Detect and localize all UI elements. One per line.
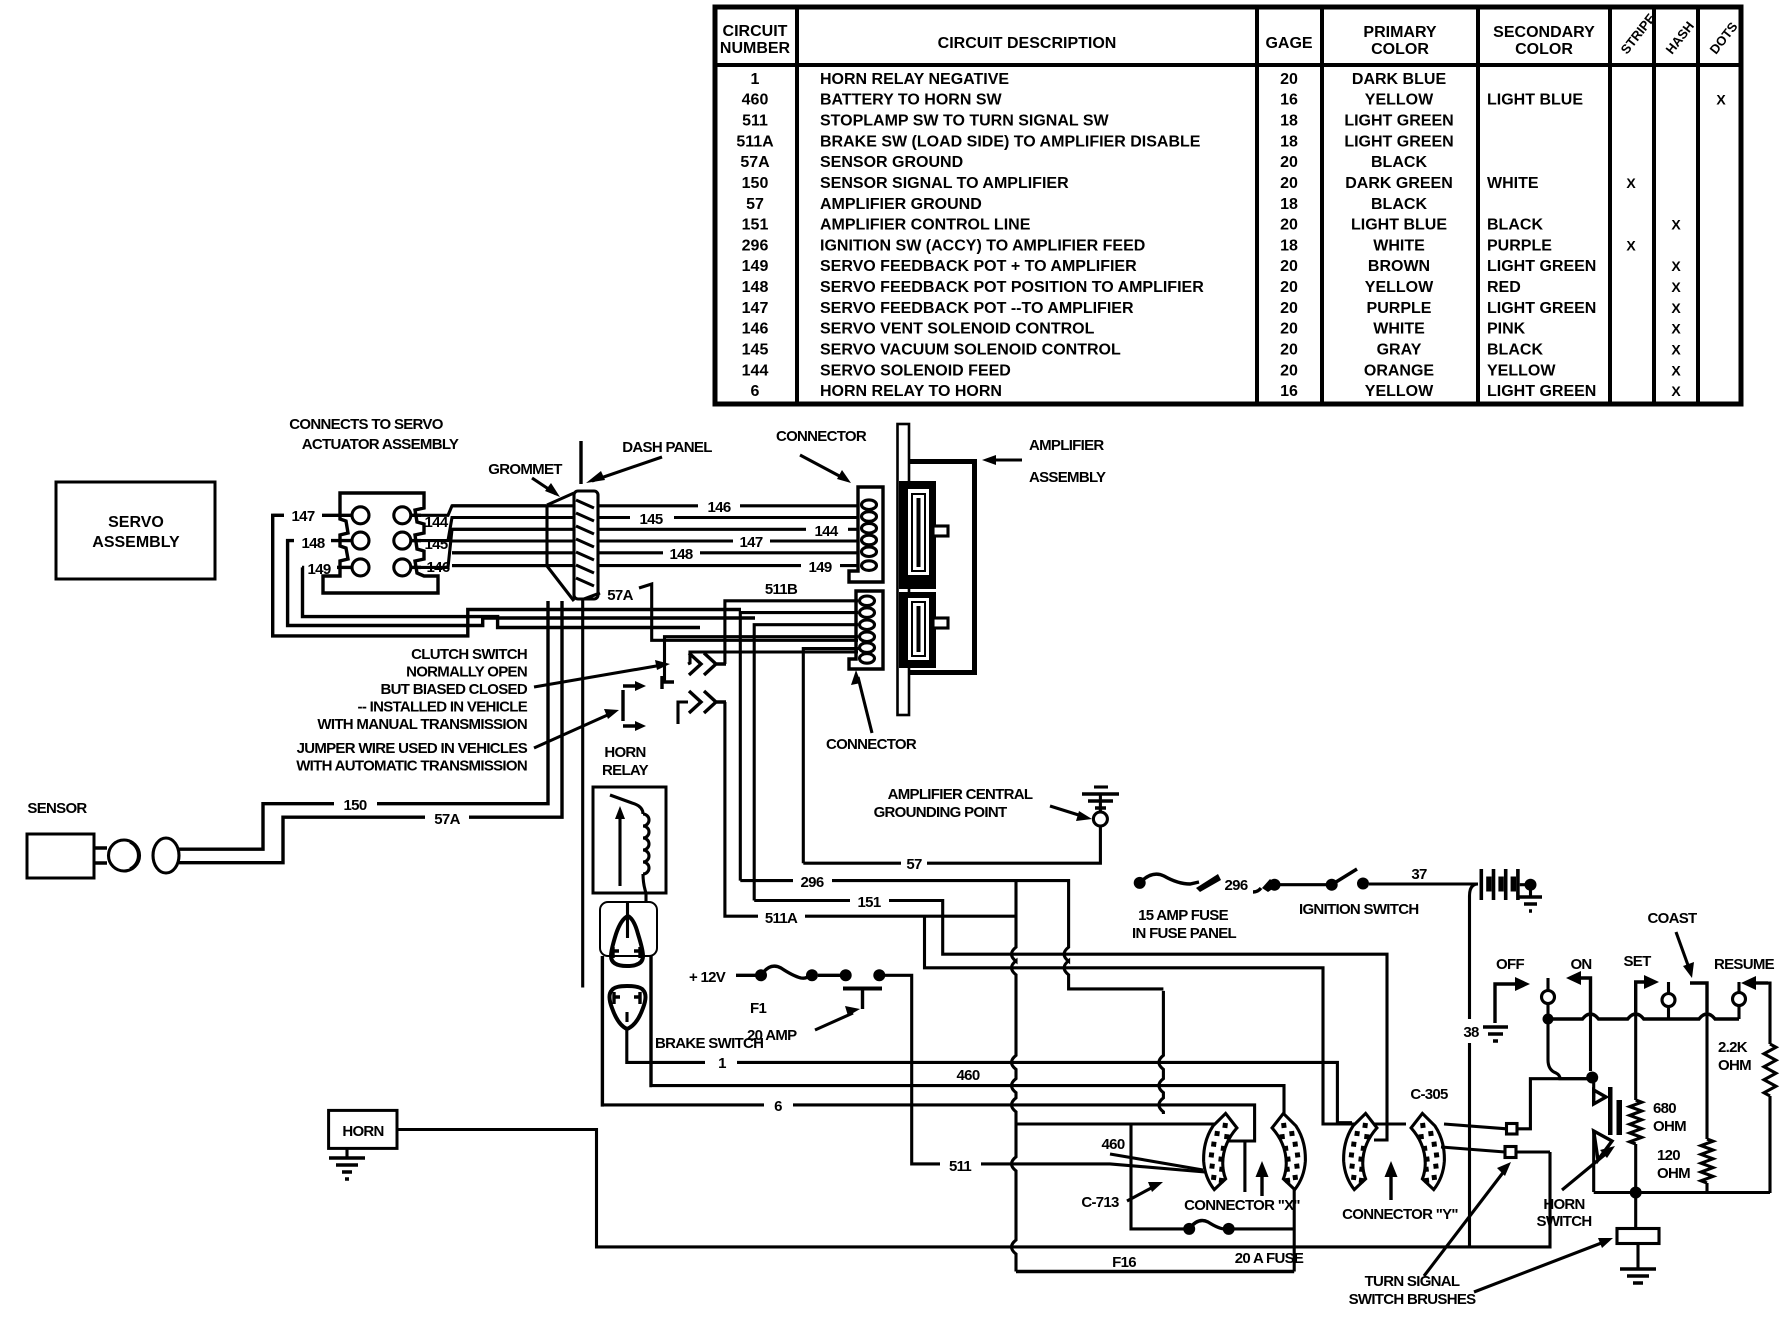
horn relay contact (pear shape) <box>611 916 643 966</box>
wire 145 run <box>410 518 630 541</box>
horn box <box>329 1110 397 1148</box>
svg-text:HORN: HORN <box>1543 1196 1584 1213</box>
wire from upper square to horn switch node <box>1517 1079 1588 1129</box>
wire from pin6 to clutch lower contact <box>688 652 858 664</box>
battery ground symbol <box>1529 890 1532 896</box>
svg-text:AMPLIFIER GROUND: AMPLIFIER GROUND <box>820 196 982 213</box>
horn feed wire <box>397 1130 1550 1247</box>
svg-text:511A: 511A <box>765 910 798 927</box>
amplifier connector housing 2 (black) <box>899 592 936 668</box>
label horn switch <box>1537 1196 1592 1230</box>
svg-text:OHM: OHM <box>1653 1118 1686 1135</box>
svg-text:20: 20 <box>1280 175 1298 192</box>
label: connects to servo actuator assembly <box>289 416 459 453</box>
svg-text:20: 20 <box>1280 71 1298 88</box>
wire 151 run <box>889 901 1387 1141</box>
svg-text:CIRCUIT: CIRCUIT <box>723 23 788 40</box>
ON contact hook <box>1577 978 1591 1012</box>
connector Y left brush <box>1340 1111 1379 1191</box>
horn button ground <box>1636 1244 1639 1269</box>
connector callout arrow (upper) <box>800 455 845 479</box>
resistor 680 ohm <box>1634 1012 1637 1100</box>
amplifier assembly mounting bracket <box>898 424 910 715</box>
wire 296 label <box>740 879 793 882</box>
svg-text:CIRCUIT DESCRIPTION: CIRCUIT DESCRIPTION <box>938 35 1117 52</box>
jumper wire text block <box>296 740 528 775</box>
svg-text:511A: 511A <box>736 133 774 150</box>
svg-text:C-305: C-305 <box>1410 1086 1448 1103</box>
svg-text:CONNECTS TO SERVO: CONNECTS TO SERVO <box>289 416 443 433</box>
harness bundle vertical (main) <box>1012 881 1017 1272</box>
svg-text:149: 149 <box>742 258 769 275</box>
switch contact circle 1 (ON/OFF) <box>1546 978 1549 990</box>
svg-text:GAGE: GAGE <box>1265 35 1312 52</box>
svg-text:16: 16 <box>1280 92 1298 109</box>
svg-text:PURPLE: PURPLE <box>1487 237 1552 254</box>
svg-text:120: 120 <box>1657 1147 1680 1164</box>
connector Y right brush (C-305) <box>1409 1111 1448 1191</box>
svg-text:150: 150 <box>742 175 769 192</box>
svg-text:WITH AUTOMATIC TRANSMISSION: WITH AUTOMATIC TRANSMISSION <box>296 758 527 775</box>
svg-text:COAST: COAST <box>1647 910 1697 927</box>
COAST callout arrow <box>1676 932 1689 968</box>
svg-text:1: 1 <box>751 71 760 88</box>
svg-text:146: 146 <box>742 321 769 338</box>
svg-text:145: 145 <box>742 342 769 359</box>
svg-text:6: 6 <box>774 1098 782 1115</box>
svg-text:BUT BIASED CLOSED: BUT BIASED CLOSED <box>381 681 528 698</box>
svg-text:148: 148 <box>742 279 769 296</box>
svg-text:15 AMP FUSE: 15 AMP FUSE <box>1138 907 1229 924</box>
harness converge lines into grommet <box>452 504 546 507</box>
svg-text:GROUNDING POINT: GROUNDING POINT <box>874 804 1007 821</box>
connector X pointer arrow <box>1260 1172 1263 1196</box>
svg-text:X: X <box>1671 300 1681 316</box>
svg-text:X: X <box>1626 175 1636 191</box>
svg-text:X: X <box>1671 321 1681 337</box>
svg-text:JUMPER WIRE USED IN VEHICLES: JUMPER WIRE USED IN VEHICLES <box>297 740 528 757</box>
wire 148 loop (left bracket middle) <box>288 541 755 626</box>
svg-text:LIGHT GREEN: LIGHT GREEN <box>1487 383 1596 400</box>
svg-text:AMPLIFIER CENTRAL: AMPLIFIER CENTRAL <box>888 786 1033 803</box>
svg-text:150: 150 <box>344 797 367 814</box>
svg-text:AMPLIFIER: AMPLIFIER <box>1029 437 1104 454</box>
horn relay label <box>602 744 649 779</box>
svg-text:CONNECTOR "Y": CONNECTOR "Y" <box>1342 1206 1458 1223</box>
fuse 296 (15 amp) <box>1134 877 1146 889</box>
wire to 296 (lower connector pin2) <box>740 613 858 881</box>
svg-text:148: 148 <box>302 535 325 552</box>
grommet callout arrow <box>532 478 556 494</box>
housing 1 tab <box>933 526 948 536</box>
resistor 120 ohm <box>1705 1012 1708 1139</box>
lower connector pin 3 <box>860 620 875 630</box>
upper connector pin 1 <box>862 500 877 510</box>
servo connector pin (left col 1) <box>352 507 369 524</box>
svg-text:SERVO FEEDBACK POT + TO AMPLIF: SERVO FEEDBACK POT + TO AMPLIFIER <box>820 258 1137 275</box>
svg-text:20: 20 <box>1280 258 1298 275</box>
svg-text:151: 151 <box>858 894 881 911</box>
svg-text:57A: 57A <box>607 587 633 604</box>
svg-text:LIGHT GREEN: LIGHT GREEN <box>1487 258 1596 275</box>
svg-text:PURPLE: PURPLE <box>1367 300 1432 317</box>
fuse 20A <box>1183 1223 1195 1235</box>
svg-text:144: 144 <box>742 362 769 379</box>
connector callout arrow (lower) <box>858 677 872 733</box>
svg-text:SERVO VACUUM SOLENOID CONTROL: SERVO VACUUM SOLENOID CONTROL <box>820 342 1121 359</box>
svg-text:BLACK: BLACK <box>1487 342 1543 359</box>
svg-text:WHITE: WHITE <box>1373 237 1425 254</box>
SET contact hook <box>1636 982 1648 1012</box>
svg-text:LIGHT GREEN: LIGHT GREEN <box>1344 133 1453 150</box>
connector X left brush (C-713) <box>1200 1111 1239 1191</box>
wire 1 from brake connector <box>627 1029 705 1062</box>
clutch switch lower contact pair <box>689 691 726 713</box>
wire 6 <box>604 1103 764 1106</box>
dash panel line (lower extension) <box>581 599 584 988</box>
svg-text:X: X <box>1671 279 1681 295</box>
svg-text:38: 38 <box>1463 1024 1479 1041</box>
wire 460 to connector X label <box>1016 1122 1219 1125</box>
connector Y pointer arrow <box>1389 1172 1392 1200</box>
svg-text:20: 20 <box>1280 300 1298 317</box>
upper connector pin 4 <box>862 535 877 545</box>
svg-text:HORN: HORN <box>604 744 645 761</box>
wire 147 loop (left bracket outer) <box>273 515 741 636</box>
svg-text:X: X <box>1671 217 1681 233</box>
horn relay coil <box>610 795 643 814</box>
wire 150 <box>179 804 334 850</box>
svg-text:LIGHT GREEN: LIGHT GREEN <box>1344 113 1453 130</box>
svg-text:460: 460 <box>957 1067 980 1084</box>
svg-text:511: 511 <box>742 113 768 130</box>
label 15 amp fuse in fuse panel <box>1132 907 1237 942</box>
upper connector pin 3 <box>862 523 877 533</box>
svg-text:57: 57 <box>906 856 922 873</box>
svg-text:LIGHT BLUE: LIGHT BLUE <box>1487 92 1583 109</box>
svg-text:151: 151 <box>742 217 769 234</box>
clutch switch fixed terminal <box>662 676 674 689</box>
svg-text:SECONDARY: SECONDARY <box>1493 24 1595 41</box>
svg-text:146: 146 <box>708 499 731 516</box>
wire 511 (battery feed down) <box>885 975 940 1164</box>
svg-text:NUMBER: NUMBER <box>720 40 791 57</box>
wire to 151 (lower connector pin3) <box>754 625 858 901</box>
svg-text:ACTUATOR ASSEMBLY: ACTUATOR ASSEMBLY <box>302 436 459 453</box>
horn relay armature arrow <box>618 812 621 886</box>
svg-text:144: 144 <box>815 523 839 540</box>
svg-text:ASSEMBLY: ASSEMBLY <box>1029 469 1106 486</box>
svg-text:20: 20 <box>1280 321 1298 338</box>
horn switch movable bar <box>1608 1087 1613 1135</box>
switch common bus <box>1548 1014 1739 1019</box>
svg-text:16: 16 <box>1280 383 1298 400</box>
resistor 2.2k ohm <box>1768 983 1770 1044</box>
svg-text:680: 680 <box>1653 1100 1676 1117</box>
grounding point ground symbol <box>1082 794 1119 808</box>
upper connector pin 2 <box>862 512 877 522</box>
svg-text:RESUME: RESUME <box>1714 956 1775 973</box>
wire from lower square to horn feed <box>1516 1150 1550 1153</box>
svg-text:511B: 511B <box>765 581 798 598</box>
sensor connector ring <box>109 840 140 871</box>
wire to jumper (lower connector pin4) <box>665 637 859 681</box>
turn signal callout arrow 1 <box>1424 1170 1505 1276</box>
wire 147 run <box>273 514 284 517</box>
svg-text:149: 149 <box>809 559 832 576</box>
svg-text:IN FUSE PANEL: IN FUSE PANEL <box>1132 925 1237 942</box>
COAST contact wire <box>1690 983 1707 1012</box>
svg-text:PRIMARY: PRIMARY <box>1363 24 1437 41</box>
upper connector pin 5 <box>862 547 877 557</box>
svg-text:SENSOR GROUND: SENSOR GROUND <box>820 154 963 171</box>
sensor body <box>27 834 94 878</box>
svg-text:DARK GREEN: DARK GREEN <box>1345 175 1453 192</box>
svg-text:SERVO SOLENOID FEED: SERVO SOLENOID FEED <box>820 362 1011 379</box>
wire to C-305 (from amplifier area) <box>925 916 1407 1124</box>
svg-text:CLUTCH SWITCH: CLUTCH SWITCH <box>411 646 527 663</box>
sensor connector plug <box>153 838 179 873</box>
servo assembly box <box>56 482 215 579</box>
svg-text:BATTERY TO HORN SW: BATTERY TO HORN SW <box>820 92 1003 109</box>
svg-text:RED: RED <box>1487 279 1521 296</box>
svg-text:296: 296 <box>801 874 824 891</box>
svg-text:YELLOW: YELLOW <box>1365 383 1434 400</box>
brake switch connector (pear shape) <box>610 986 646 1029</box>
svg-text:AMPLIFIER CONTROL LINE: AMPLIFIER CONTROL LINE <box>820 217 1031 234</box>
svg-text:SENSOR SIGNAL TO AMPLIFIER: SENSOR SIGNAL TO AMPLIFIER <box>820 175 1069 192</box>
svg-text:BRAKE SWITCH: BRAKE SWITCH <box>655 1035 763 1052</box>
connector (upper 6-pin) body <box>849 487 883 582</box>
wire F16 <box>1016 1270 1294 1273</box>
jumper wire callout arrow <box>534 713 612 748</box>
svg-text:148: 148 <box>670 546 693 563</box>
brake switch callout arrow <box>815 1013 853 1030</box>
svg-text:IGNITION SWITCH: IGNITION SWITCH <box>1299 901 1419 918</box>
svg-text:296: 296 <box>742 237 769 254</box>
switch contact circle 2 (SET) <box>1667 982 1670 993</box>
svg-text:18: 18 <box>1280 237 1298 254</box>
amplifier callout arrow <box>990 458 1022 461</box>
OFF ground symbol <box>1483 1027 1508 1041</box>
lower connector pin 5 <box>860 643 875 653</box>
svg-text:F1: F1 <box>750 1000 766 1017</box>
svg-text:296: 296 <box>1225 877 1248 894</box>
amplifier connector housing 1 (black) <box>899 481 936 589</box>
svg-text:6: 6 <box>751 383 760 400</box>
svg-text:C-713: C-713 <box>1081 1194 1119 1211</box>
svg-text:57: 57 <box>746 196 764 213</box>
svg-text:20: 20 <box>1280 154 1298 171</box>
lower connector pin 1 <box>860 596 875 606</box>
wire color code table frame <box>715 7 1741 404</box>
svg-text:145: 145 <box>640 511 663 528</box>
wire 57 <box>803 862 901 865</box>
grounding point callout arrow <box>1050 806 1085 817</box>
svg-text:CONNECTOR "X": CONNECTOR "X" <box>1184 1197 1300 1214</box>
jumper wire symbol <box>623 686 637 726</box>
turn signal callout arrow 2 <box>1474 1242 1604 1292</box>
brake pear pin left <box>614 992 620 1004</box>
svg-text:GROMMET: GROMMET <box>488 461 562 478</box>
wire 144 run <box>410 529 806 567</box>
svg-text:SERVO VENT SOLENOID CONTROL: SERVO VENT SOLENOID CONTROL <box>820 321 1095 338</box>
svg-text:SERVO FEEDBACK POT --TO AMPLI: SERVO FEEDBACK POT --TO AMPLIFIER <box>820 300 1134 317</box>
svg-text:57A: 57A <box>740 154 770 171</box>
svg-text:SWITCH: SWITCH <box>1537 1213 1592 1230</box>
grommet body <box>574 491 598 599</box>
svg-text:WITH MANUAL TRANSMISSION: WITH MANUAL TRANSMISSION <box>317 716 527 733</box>
svg-text:IGNITION SW (ACCY) TO AMPLIFIE: IGNITION SW (ACCY) TO AMPLIFIER FEED <box>820 237 1145 254</box>
svg-text:20: 20 <box>1280 342 1298 359</box>
svg-text:511: 511 <box>949 1158 971 1175</box>
svg-text:SERVO FEEDBACK POT POSITION T: SERVO FEEDBACK POT POSITION TO AMPLIFIER <box>820 279 1204 296</box>
svg-text:DASH PANEL: DASH PANEL <box>622 439 712 456</box>
svg-text:HORN RELAY TO HORN: HORN RELAY TO HORN <box>820 383 1002 400</box>
OFF contact hook <box>1495 984 1518 1023</box>
svg-text:57A: 57A <box>434 811 460 828</box>
connector (lower 6-pin) body <box>849 591 883 669</box>
svg-text:X: X <box>1626 237 1636 253</box>
svg-text:20: 20 <box>1280 362 1298 379</box>
wire 151 label <box>754 899 850 902</box>
svg-text:147: 147 <box>292 508 315 525</box>
brake pear pin right <box>634 992 640 1004</box>
wire 149 run <box>452 564 801 567</box>
dash panel line (upper) <box>579 441 582 484</box>
svg-text:TURN SIGNAL: TURN SIGNAL <box>1365 1273 1460 1290</box>
svg-text:ASSEMBLY: ASSEMBLY <box>92 534 180 551</box>
svg-text:GRAY: GRAY <box>1377 342 1422 359</box>
svg-text:COLOR: COLOR <box>1371 41 1429 58</box>
svg-text:37: 37 <box>1411 866 1427 883</box>
svg-text:LIGHT GREEN: LIGHT GREEN <box>1487 300 1596 317</box>
svg-text:460: 460 <box>742 92 769 109</box>
horn relay contact frame <box>600 902 657 956</box>
amplifier grounding label <box>874 786 1033 821</box>
servo connector pin (right col 3) <box>394 559 411 576</box>
svg-text:SENSOR: SENSOR <box>27 800 87 817</box>
svg-text:ORANGE: ORANGE <box>1364 362 1435 379</box>
svg-text:20: 20 <box>1280 217 1298 234</box>
svg-text:BLACK: BLACK <box>1371 154 1427 171</box>
svg-text:+ 12V: + 12V <box>689 969 726 986</box>
amplifier grounding central point circle <box>1093 812 1107 826</box>
wire 57A (sensor side) <box>179 817 425 863</box>
svg-text:YELLOW: YELLOW <box>1365 279 1434 296</box>
dash panel callout arrow <box>592 457 662 481</box>
svg-text:SWITCH BRUSHES: SWITCH BRUSHES <box>1349 1291 1477 1308</box>
wire to ignition switch <box>1280 883 1327 886</box>
lower connector pin 2 <box>860 608 875 618</box>
wire 296 run to fuse <box>832 881 1163 989</box>
svg-text:X: X <box>1671 258 1681 274</box>
svg-text:X: X <box>1671 383 1681 399</box>
servo connector pin (left col 2) <box>352 532 369 549</box>
svg-text:460: 460 <box>1102 1136 1125 1153</box>
svg-text:20: 20 <box>1280 279 1298 296</box>
RESUME contact hook <box>1752 981 1768 984</box>
lower connector pin 6 <box>860 654 875 664</box>
wire 511B (lower connector pin1 to clutch switch) <box>725 601 858 664</box>
wire 149 loop (left bracket inner) <box>302 567 700 627</box>
upper connector pin 6 <box>862 561 877 571</box>
svg-text:OFF: OFF <box>1496 956 1524 973</box>
svg-text:2.2K: 2.2K <box>1718 1039 1748 1056</box>
svg-text:147: 147 <box>742 300 769 317</box>
horn ground symbol <box>345 1148 348 1157</box>
wire 38 <box>1470 884 1479 1019</box>
turn signal brush square upper <box>1507 1124 1518 1135</box>
servo connector pin (left col 3) <box>352 559 369 576</box>
horn switch lower contact <box>1592 1131 1595 1192</box>
switch contact circle 3 (RESUME) <box>1737 982 1740 992</box>
svg-text:PINK: PINK <box>1487 321 1526 338</box>
label turn signal switch brushes <box>1349 1273 1477 1308</box>
relay contact pin right <box>634 947 640 958</box>
svg-text:149: 149 <box>308 561 331 578</box>
clutch switch callout arrow <box>534 665 662 687</box>
svg-text:NORMALLY OPEN: NORMALLY OPEN <box>406 664 527 681</box>
horn switch node dot <box>1586 1072 1598 1084</box>
svg-text:WHITE: WHITE <box>1487 175 1539 192</box>
brake switch connector frame wires <box>602 956 604 1105</box>
ON wire down to node <box>1589 1012 1592 1071</box>
C-305 wires to brush squares <box>1444 1124 1507 1129</box>
svg-text:RELAY: RELAY <box>602 762 649 779</box>
horn switch upper contact <box>1592 1083 1595 1097</box>
svg-text:CONNECTOR: CONNECTOR <box>826 736 917 753</box>
svg-text:YELLOW: YELLOW <box>1487 362 1556 379</box>
turn signal brush square lower <box>1505 1147 1516 1158</box>
svg-text:HORN RELAY NEGATIVE: HORN RELAY NEGATIVE <box>820 71 1009 88</box>
wire from bus dot to horn switch node <box>1548 1024 1588 1079</box>
ignition switch <box>1326 879 1338 891</box>
servo connector pin (right col 1) <box>394 507 411 524</box>
svg-text:CONNECTOR: CONNECTOR <box>776 428 867 445</box>
bottom bus <box>1594 1191 1770 1194</box>
wire 57A (grommet side) <box>584 593 600 599</box>
svg-text:HORN: HORN <box>342 1123 383 1140</box>
relay contact pin left <box>613 947 619 958</box>
svg-text:BLACK: BLACK <box>1487 217 1543 234</box>
battery <box>1480 869 1520 900</box>
svg-text:YELLOW: YELLOW <box>1365 92 1434 109</box>
svg-text:F16: F16 <box>1112 1254 1136 1271</box>
svg-text:LIGHT BLUE: LIGHT BLUE <box>1351 217 1447 234</box>
svg-text:SET: SET <box>1623 953 1651 970</box>
svg-text:145: 145 <box>425 536 448 553</box>
svg-text:STOPLAMP SW TO TURN SIGNAL SW: STOPLAMP SW TO TURN SIGNAL SW <box>820 113 1110 130</box>
svg-text:-- INSTALLED IN VEHICLE: -- INSTALLED IN VEHICLE <box>358 699 528 716</box>
bus junction dot <box>1543 1014 1554 1025</box>
table header text <box>720 10 1741 58</box>
clutch switch text block <box>317 646 527 733</box>
svg-text:ON: ON <box>1570 956 1591 973</box>
svg-text:SERVO: SERVO <box>108 514 164 531</box>
svg-text:COLOR: COLOR <box>1515 41 1573 58</box>
svg-text:OHM: OHM <box>1718 1057 1751 1074</box>
svg-text:1: 1 <box>718 1055 726 1072</box>
horn button <box>1634 1193 1637 1229</box>
horn relay box <box>593 787 666 893</box>
svg-text:OHM: OHM <box>1657 1165 1690 1182</box>
connector X right brush <box>1270 1111 1309 1191</box>
wire 37 <box>1369 882 1478 885</box>
svg-text:X: X <box>1671 342 1681 358</box>
svg-text:BROWN: BROWN <box>1368 258 1430 275</box>
wire 148 run <box>452 551 663 554</box>
